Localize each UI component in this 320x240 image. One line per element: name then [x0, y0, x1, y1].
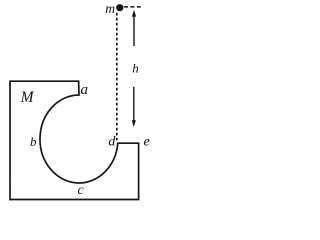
svg-text:a: a	[81, 82, 89, 98]
svg-text:c: c	[78, 183, 85, 198]
svg-text:e: e	[144, 135, 150, 150]
svg-text:m: m	[105, 1, 115, 16]
dashed horizontal reference line at ball level	[124, 6, 143, 8]
ball m	[116, 4, 123, 11]
svg-text:b: b	[30, 134, 37, 149]
dashed vertical drop line from m down to d	[116, 13, 118, 140]
svg-text:M: M	[20, 89, 35, 106]
dimension arrow down	[133, 87, 135, 121]
svg-text:h: h	[132, 60, 139, 75]
svg-text:d: d	[108, 135, 116, 150]
block M outline with circular loop cavity a-b-c-d and ledge to e	[10, 81, 139, 199]
dimension arrow up	[133, 16, 135, 47]
